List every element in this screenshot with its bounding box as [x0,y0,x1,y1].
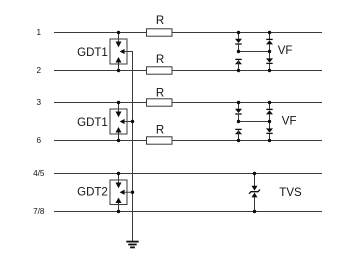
junction dot line2/GDT1 [117,69,120,72]
svg-text:R: R [156,125,164,137]
wire line 1 [54,32,322,34]
junction dot line7/8-TVS [253,210,256,213]
junction dots VF1 [237,31,271,72]
svg-text:4/5: 4/5 [33,169,45,178]
junction dot line3/GDT1 [117,101,120,104]
wire line 3 [54,102,322,104]
wire line 4/5 [54,173,322,175]
svg-text:R: R [156,54,164,66]
junction dots VF2 [237,101,271,142]
junction dot line4/5-TVS [253,172,256,175]
junction dot line1/GDT1 [117,31,120,34]
svg-text:R: R [156,88,164,100]
junction dot line4/5-GDT2 [117,172,120,175]
gas discharge tube GDT2 (lines 4/5-7/8) [110,174,133,212]
svg-text:1: 1 [37,28,42,37]
wire line 2 [54,70,322,72]
wire line 7/8 [54,211,322,213]
wire ground bus [125,52,133,242]
wire line 6 [54,140,322,142]
resistor R (line 1) [147,29,173,36]
VF diode array (lines 1-2) [235,33,273,71]
resistor R (line 6) [147,137,173,144]
svg-text:VF: VF [278,45,293,57]
junction dot line6/GDT1 [117,139,120,142]
VF diode array (lines 3-6) [235,103,273,141]
svg-text:3: 3 [37,98,42,107]
ground [126,242,138,248]
gas discharge tube GDT1 (lines 1-2) [110,33,133,71]
junction dot GDT1-bus [131,120,134,123]
svg-text:GDT1: GDT1 [77,117,108,129]
TVS diode (lines 4/5-7/8) [249,174,260,212]
svg-text:TVS: TVS [279,187,302,199]
svg-text:VF: VF [282,115,297,127]
svg-text:6: 6 [37,136,42,145]
svg-text:2: 2 [37,66,42,75]
gas discharge tube GDT1 (lines 3-6) [110,103,133,141]
svg-text:GDT1: GDT1 [77,47,108,59]
svg-text:7/8: 7/8 [33,207,45,216]
svg-text:R: R [156,15,164,27]
junction dot GDT2-bus [131,191,134,194]
svg-text:GDT2: GDT2 [77,187,108,199]
resistor R (line 2) [147,67,173,74]
resistor R (line 3) [147,99,173,106]
junction dot line7/8-GDT2 [117,210,120,213]
